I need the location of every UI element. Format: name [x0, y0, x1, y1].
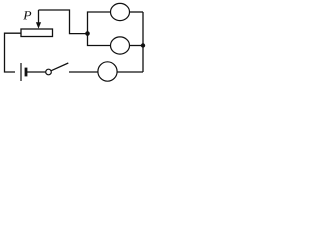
lamp L3 (bottom circle) [98, 62, 117, 81]
slider arrow shaft [38, 10, 40, 24]
wire junction A vertical up to top branch [88, 12, 111, 34]
wire from lamp L2 to right rail [130, 45, 144, 47]
rheostat P (resistor box) [21, 29, 53, 37]
switch lever (open) [51, 63, 68, 71]
wire bottom right from rail to lamp L3 [117, 71, 143, 73]
lamp L1 (top circle) [111, 3, 130, 20]
wire junction A vertical down to middle branch [88, 34, 111, 46]
junction node A dot [85, 31, 90, 36]
label P [23, 11, 31, 19]
wire from lamp L1 to right rail [130, 11, 144, 13]
wire right rail [142, 12, 144, 72]
battery short plate (negative, thick) [25, 68, 28, 77]
battery long plate (positive) [20, 63, 22, 81]
wire left rail from rheostat left end down to bottom wire [5, 33, 22, 72]
switch pivot circle [46, 69, 52, 75]
wire from switch to lamp L3 [69, 71, 98, 73]
slider arrow head [36, 22, 41, 28]
wire from battery to switch [27, 71, 46, 73]
lamp L2 (middle circle) [111, 37, 130, 54]
junction node B dot on right rail [141, 43, 145, 47]
wire from slider up and over to junction A [39, 10, 88, 34]
